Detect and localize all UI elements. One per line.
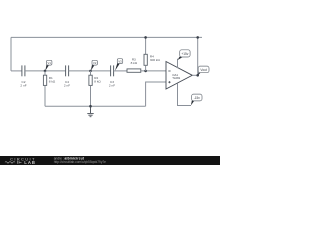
wire left vertical — [10, 37, 12, 71]
wire C2 to node V1 to C4 — [25, 70, 66, 72]
capacitor C4 — [66, 65, 69, 76]
wire R3 to op-amp inverting input — [141, 70, 166, 72]
svg-text:+15v: +15v — [181, 52, 188, 56]
wire output to top rail — [197, 37, 199, 75]
junction R4 top — [144, 36, 147, 39]
wire op-amp output — [192, 74, 197, 76]
svg-text:LAB: LAB — [24, 160, 36, 165]
footer bar — [0, 156, 220, 165]
wire main input segment — [11, 70, 22, 72]
ground — [87, 106, 93, 117]
svg-text:8 kΩ: 8 kΩ — [49, 79, 56, 83]
resistor R4 — [144, 37, 147, 71]
svg-text:-15v: -15v — [194, 96, 201, 100]
-15v supply flag — [191, 94, 202, 105]
svg-text:2 nF: 2 nF — [20, 84, 26, 88]
svg-text:8 kΩ: 8 kΩ — [131, 61, 138, 65]
svg-text:2 nF: 2 nF — [64, 84, 70, 88]
junction ground — [89, 105, 92, 108]
svg-text:300 kΩ: 300 kΩ — [150, 58, 161, 62]
wire C4 to node V2 to C3 — [69, 70, 111, 72]
junction R4 bottom — [144, 70, 147, 73]
svg-text:V3: V3 — [118, 59, 122, 63]
svg-text:http://circuitlab.com/c/qb55qw: http://circuitlab.com/c/qb55qwk79y7e — [54, 160, 106, 164]
Vout flag — [198, 66, 209, 75]
resistor R1 — [43, 71, 46, 106]
node V1 flag — [45, 60, 52, 71]
svg-text:Vout: Vout — [200, 68, 206, 72]
junction top right — [196, 36, 199, 39]
node V2 flag — [91, 60, 98, 71]
junction node V2 — [89, 70, 92, 73]
capacitor C2 — [22, 65, 25, 76]
wire C3 to R3 — [114, 70, 127, 72]
svg-text:V2: V2 — [93, 61, 97, 65]
resistor R3 — [127, 69, 141, 72]
svg-text:8 kΩ: 8 kΩ — [94, 79, 101, 83]
wire top feedback rail — [11, 36, 202, 38]
svg-text:V1: V1 — [48, 61, 52, 65]
CircuitLab logo — [5, 156, 36, 165]
svg-text:2 nF: 2 nF — [109, 84, 115, 88]
junction output node — [196, 74, 199, 77]
op-amp OA1 TL081 — [166, 62, 192, 90]
+15v supply flag — [178, 50, 190, 60]
svg-text:TL081: TL081 — [172, 76, 180, 80]
wire op-amp V- supply to label — [178, 83, 192, 105]
resistor R2 — [89, 71, 92, 106]
wire op-amp V+ supply stub — [177, 59, 179, 68]
node V3 flag — [115, 59, 123, 71]
wire non-inverting input — [146, 82, 166, 106]
capacitor C3 — [111, 65, 114, 76]
bottom ground rail — [45, 105, 146, 107]
junction node V1 — [44, 70, 47, 73]
